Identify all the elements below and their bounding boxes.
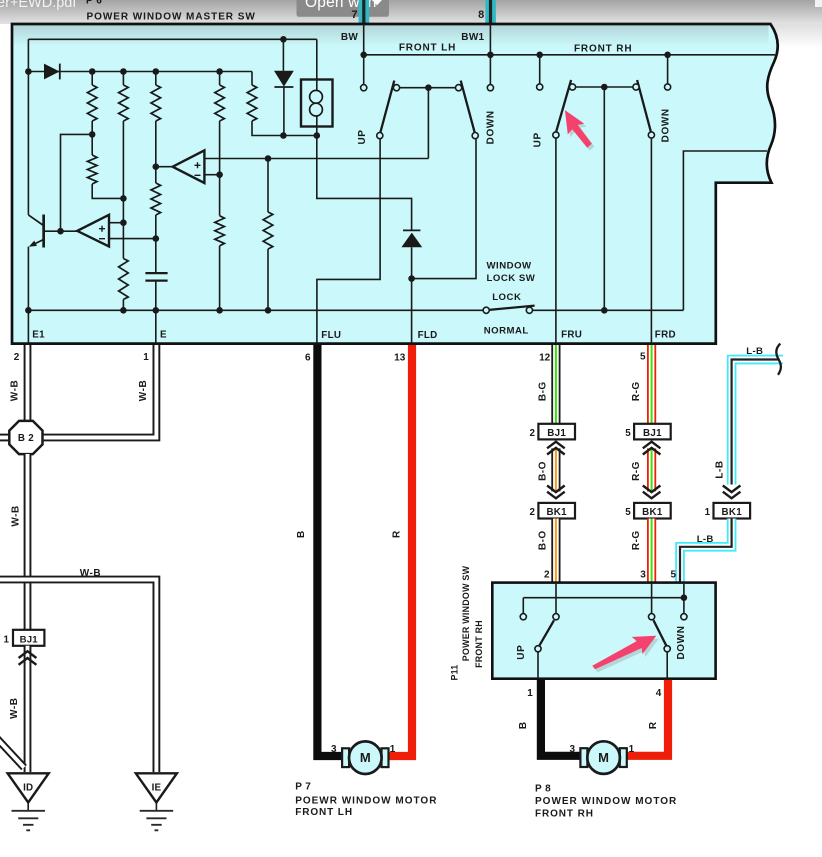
motor P7 bbox=[342, 748, 349, 767]
connector BK1 (FRU junction 2) bbox=[538, 503, 575, 519]
svg-text:3: 3 bbox=[640, 570, 646, 581]
U2 + input wire bbox=[109, 222, 123, 224]
connector BJ1 (FRU junction) bbox=[538, 424, 575, 440]
svg-text:FRONT RH: FRONT RH bbox=[535, 809, 594, 820]
wire D3 node right and up to DOWN contact bbox=[412, 139, 476, 279]
col2 vertical bbox=[122, 121, 124, 259]
capacitor C1 bbox=[145, 273, 167, 281]
resistor R2 bbox=[119, 85, 129, 121]
svg-text:POEWR WINDOW MOTOR: POEWR WINDOW MOTOR bbox=[295, 796, 437, 807]
FRONT RH center wire down to rail bbox=[603, 87, 605, 310]
wire E1 to B2 (W-B) bbox=[24, 345, 32, 422]
connector BJ1 (FRD junction) bbox=[634, 424, 671, 440]
svg-text:5: 5 bbox=[670, 570, 676, 581]
svg-text:BW1: BW1 bbox=[461, 32, 484, 43]
BW supply vertical bbox=[363, 24, 365, 85]
U2 - input wire bbox=[109, 238, 156, 240]
svg-text:BK1: BK1 bbox=[642, 507, 663, 518]
FRONT LH center wire down bbox=[427, 88, 429, 159]
browser toolbar header bbox=[0, 0, 822, 24]
FRONT LH contact bar bbox=[397, 87, 459, 89]
resistor R4 bbox=[215, 85, 225, 121]
svg-text:FRU: FRU bbox=[561, 330, 582, 341]
ground rail right part bbox=[533, 309, 684, 311]
FRONT RH supply stubs bbox=[540, 55, 668, 84]
svg-text:3: 3 bbox=[569, 744, 575, 755]
col5 wire down and over to relay bottom bbox=[252, 121, 317, 136]
diode D1 bbox=[44, 64, 60, 80]
resistor R6 bbox=[87, 155, 97, 184]
svg-text:5: 5 bbox=[640, 352, 646, 363]
BW1 supply vertical bbox=[489, 24, 491, 85]
window lock sw lever bbox=[489, 306, 534, 310]
svg-text:1: 1 bbox=[629, 744, 635, 755]
resistor R3 bbox=[151, 85, 161, 121]
svg-text:B: B bbox=[518, 722, 529, 730]
connector BK1 (L-B junction) bbox=[714, 503, 751, 519]
wire R1 bottom to node bbox=[91, 121, 93, 134]
resistor R10 bbox=[263, 212, 273, 249]
wire B (FLU) thick black bbox=[317, 345, 342, 756]
col x268 from + wire down bbox=[267, 159, 269, 213]
connector BK1 (FRD junction 2) bbox=[634, 503, 671, 519]
svg-text:B-G: B-G bbox=[537, 381, 548, 401]
wire B-O lower bbox=[551, 519, 560, 584]
FRONT RH lever UP bbox=[556, 80, 571, 132]
svg-text:13: 13 bbox=[394, 353, 406, 364]
ground IE bbox=[136, 773, 177, 802]
wire R6 bottom corner to col2 bbox=[92, 184, 123, 198]
page continuation bracket bbox=[776, 344, 781, 375]
svg-text:FRONT RH: FRONT RH bbox=[574, 43, 632, 54]
svg-text:BK1: BK1 bbox=[546, 507, 567, 518]
relay coil L1 bbox=[301, 80, 333, 127]
svg-text:12: 12 bbox=[539, 353, 551, 364]
svg-text:B 2: B 2 bbox=[18, 433, 34, 444]
svg-text:1: 1 bbox=[4, 635, 10, 646]
wire L-B lower bbox=[680, 519, 732, 584]
wire E wire down and left to B2 (W-B) bbox=[43, 345, 156, 438]
emitter vertical wire bbox=[27, 247, 29, 311]
svg-text:BW: BW bbox=[341, 32, 359, 43]
svg-text:1: 1 bbox=[527, 688, 533, 699]
FLU wire from UP contact down-left-down bbox=[317, 139, 380, 343]
svg-text:BJ1: BJ1 bbox=[547, 428, 566, 439]
svg-text:DOWN: DOWN bbox=[661, 108, 672, 142]
svg-text:ID: ID bbox=[23, 783, 33, 794]
wire R (P11 to P8) bbox=[625, 680, 668, 756]
chevrons below BJ1 bbox=[19, 651, 37, 665]
svg-text:FLD: FLD bbox=[418, 330, 438, 341]
wire B-O mid bbox=[551, 448, 560, 491]
P11 lever UP bbox=[539, 620, 554, 645]
FRONT LH lever DOWN bbox=[461, 81, 475, 133]
Open with button bbox=[297, 0, 390, 17]
teal highlight wire 7 bbox=[359, 0, 370, 24]
motor P8 bbox=[580, 748, 587, 767]
svg-text:FRONT LH: FRONT LH bbox=[295, 807, 353, 818]
E exit wire bbox=[155, 310, 157, 343]
svg-text:LOCK: LOCK bbox=[492, 292, 521, 303]
svg-text:FRONT RH: FRONT RH bbox=[474, 620, 484, 668]
wire BJ1 to ID (W-B) bbox=[24, 646, 32, 772]
FRONT RH lever DOWN bbox=[637, 80, 651, 132]
FRD exit wire bbox=[650, 138, 652, 343]
svg-text:W-B: W-B bbox=[10, 505, 21, 526]
U2 output to transistor base bbox=[45, 230, 77, 232]
wire R-G mid bbox=[647, 448, 656, 491]
svg-text:er+EWD.pdf: er+EWD.pdf bbox=[0, 0, 77, 11]
svg-text:B-O: B-O bbox=[537, 530, 548, 550]
svg-text:R-G: R-G bbox=[631, 381, 642, 401]
op-amp U2 bbox=[77, 215, 109, 247]
svg-text:3: 3 bbox=[331, 744, 337, 755]
transistor Q1 bbox=[42, 215, 45, 248]
U1 output wire bbox=[156, 166, 173, 168]
wire L-B upper bbox=[732, 360, 778, 485]
power window switch box P11 bbox=[492, 583, 715, 679]
annotation arrow 1 bbox=[560, 108, 598, 156]
resistor R7 bbox=[119, 259, 129, 300]
svg-text:FRONT LH: FRONT LH bbox=[399, 42, 456, 53]
svg-text:8: 8 bbox=[478, 9, 484, 21]
svg-text:UP: UP bbox=[516, 645, 527, 660]
svg-text:5: 5 bbox=[625, 507, 631, 518]
svg-text:2: 2 bbox=[14, 352, 20, 363]
connector BJ1 (left) bbox=[13, 630, 44, 646]
svg-text:BK1: BK1 bbox=[722, 507, 743, 518]
svg-text:L-B: L-B bbox=[697, 534, 714, 545]
svg-text:UP: UP bbox=[357, 129, 368, 144]
wire R-G lower bbox=[647, 519, 656, 584]
node wire from R1 bottom left-down to transistor base node bbox=[61, 134, 93, 231]
svg-text:WINDOW: WINDOW bbox=[487, 260, 533, 271]
svg-text:R: R bbox=[392, 530, 403, 538]
svg-text:DOWN: DOWN bbox=[485, 110, 496, 144]
svg-text:1: 1 bbox=[390, 744, 396, 755]
wire R (FLD) thick red bbox=[386, 345, 412, 756]
U1 + input long wire to FRONT LH switch bbox=[204, 158, 428, 160]
svg-text:DOWN: DOWN bbox=[676, 625, 687, 659]
svg-text:P 7: P 7 bbox=[295, 782, 311, 793]
resistor R9 bbox=[215, 216, 225, 246]
svg-text:FLU: FLU bbox=[321, 330, 341, 341]
svg-text:P11: P11 bbox=[449, 665, 459, 681]
resistor R8 bbox=[151, 183, 161, 215]
svg-text:BJ1: BJ1 bbox=[643, 428, 662, 439]
wire B2 to BJ1 (W-B) bbox=[24, 454, 32, 630]
left vertical wire (collector side) bbox=[27, 39, 29, 215]
wire B (P11 to P8) bbox=[541, 680, 582, 756]
svg-text:UP: UP bbox=[533, 132, 544, 147]
E1 exit wire bbox=[27, 310, 29, 343]
horizontal supply wire y54.8 bbox=[364, 54, 775, 56]
resistor R5 bbox=[247, 85, 257, 121]
diode D2 (top, pointing down) bbox=[282, 39, 284, 71]
wire FRU B-G bbox=[551, 345, 560, 424]
wire IE stub bbox=[155, 803, 157, 811]
svg-text:B-O: B-O bbox=[537, 461, 548, 481]
wire R8 to cap bbox=[155, 215, 157, 273]
ground ID bbox=[8, 773, 49, 802]
svg-text:6: 6 bbox=[305, 353, 311, 364]
svg-text:B: B bbox=[296, 530, 307, 538]
col3 vertical bbox=[155, 121, 157, 183]
svg-text:POWER WINDOW MASTER SW: POWER WINDOW MASTER SW bbox=[87, 11, 256, 22]
diode D3 (pointing up) bbox=[403, 229, 420, 231]
relay bottom wire down then right to D3 bbox=[317, 136, 412, 231]
col4 vertical bbox=[219, 121, 221, 216]
wire horizontal to IE ground (W-B) bbox=[0, 580, 156, 773]
svg-text:FRD: FRD bbox=[655, 330, 676, 341]
resistor column stubs bbox=[92, 72, 252, 86]
wire FRD R-G bbox=[647, 345, 656, 424]
FRU exit wire bbox=[555, 138, 557, 343]
svg-text:R: R bbox=[648, 721, 659, 729]
svg-text:E1: E1 bbox=[32, 330, 45, 341]
FRONT LH lever UP bbox=[380, 81, 394, 133]
wire B2 left off-page (W-B) bbox=[0, 434, 10, 442]
svg-text:P 6: P 6 bbox=[86, 0, 102, 7]
resistor R1 bbox=[87, 85, 97, 121]
FRONT RH contact bar bbox=[573, 86, 637, 88]
dropdown caret bbox=[371, 0, 384, 5]
svg-text:R-G: R-G bbox=[631, 461, 642, 481]
svg-text:4: 4 bbox=[656, 688, 662, 699]
svg-text:W-B: W-B bbox=[138, 380, 149, 401]
second rail wire y71.5 bbox=[28, 71, 252, 73]
svg-text:LOCK SW: LOCK SW bbox=[487, 273, 536, 284]
svg-text:IE: IE bbox=[152, 783, 162, 794]
svg-text:L-B: L-B bbox=[714, 460, 725, 478]
svg-text:1: 1 bbox=[705, 507, 711, 518]
svg-text:E: E bbox=[160, 330, 167, 341]
svg-text:POWER WINDOW MOTOR: POWER WINDOW MOTOR bbox=[535, 796, 677, 807]
svg-text:5: 5 bbox=[625, 428, 631, 439]
svg-text:M: M bbox=[598, 750, 609, 765]
top rail wire bbox=[28, 38, 316, 40]
svg-text:2: 2 bbox=[530, 507, 536, 518]
svg-text:W-B: W-B bbox=[80, 568, 101, 579]
svg-text:NORMAL: NORMAL bbox=[484, 325, 529, 336]
svg-text:2: 2 bbox=[530, 428, 536, 439]
svg-text:R-G: R-G bbox=[631, 530, 642, 550]
svg-text:BJ1: BJ1 bbox=[20, 635, 39, 646]
power window master switch box P6 outline bbox=[12, 24, 778, 344]
wire ID stub bbox=[27, 803, 29, 811]
svg-text:P 8: P 8 bbox=[535, 784, 551, 795]
wire node to R6 bbox=[91, 134, 93, 155]
P11 lever DOWN bbox=[654, 620, 667, 645]
teal highlight wire 8 bbox=[485, 0, 496, 24]
ground rail left part bbox=[28, 309, 483, 311]
svg-text:W-B: W-B bbox=[9, 380, 20, 401]
L-B exit wire to torn edge bbox=[683, 151, 767, 310]
svg-text:W-B: W-B bbox=[9, 697, 20, 718]
wire diagonal into ID (W-B) bbox=[0, 739, 24, 768]
svg-text:1: 1 bbox=[143, 352, 149, 363]
annotation arrow 2 bbox=[591, 630, 663, 679]
svg-text:7: 7 bbox=[351, 9, 357, 21]
svg-text:M: M bbox=[360, 750, 371, 765]
op-amp U1 bbox=[173, 150, 205, 183]
svg-text:2: 2 bbox=[544, 570, 550, 581]
P11 internal supply wire bbox=[523, 597, 684, 599]
U1 - input wire bbox=[204, 174, 219, 176]
wire L-B bbox=[732, 355, 783, 365]
svg-text:POWER WINDOW SW: POWER WINDOW SW bbox=[461, 565, 471, 661]
